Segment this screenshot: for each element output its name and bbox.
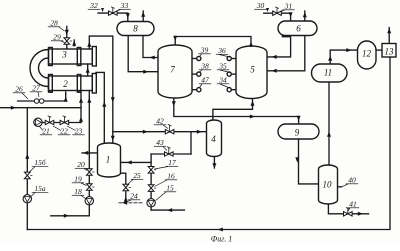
svg-text:16: 16 [167, 172, 175, 181]
svg-text:28: 28 [50, 19, 58, 28]
svg-text:36: 36 [217, 46, 226, 55]
svg-text:10: 10 [323, 180, 333, 190]
svg-text:47: 47 [201, 76, 209, 85]
svg-text:20: 20 [77, 160, 85, 169]
svg-text:43: 43 [156, 138, 164, 147]
svg-text:2: 2 [63, 79, 68, 89]
svg-text:31: 31 [284, 2, 293, 11]
svg-text:18: 18 [74, 187, 82, 196]
svg-text:12: 12 [362, 49, 372, 59]
svg-text:25: 25 [133, 171, 141, 180]
svg-text:27: 27 [32, 84, 40, 93]
svg-text:24: 24 [130, 192, 138, 201]
svg-text:15: 15 [166, 184, 174, 193]
svg-text:29: 29 [53, 33, 61, 42]
svg-text:9: 9 [295, 128, 300, 138]
svg-text:15а: 15а [34, 184, 46, 193]
svg-text:1: 1 [106, 155, 111, 165]
svg-text:19: 19 [74, 175, 82, 184]
svg-text:23: 23 [75, 127, 83, 136]
svg-text:Фиг. 1: Фиг. 1 [211, 235, 232, 244]
svg-text:30: 30 [256, 1, 265, 10]
svg-text:7: 7 [170, 65, 175, 75]
svg-text:4: 4 [211, 134, 216, 144]
svg-text:35: 35 [218, 62, 227, 71]
svg-text:22: 22 [60, 127, 68, 136]
svg-text:38: 38 [200, 62, 209, 71]
svg-text:32: 32 [89, 1, 98, 10]
svg-text:39: 39 [200, 46, 209, 55]
svg-text:17: 17 [168, 158, 176, 167]
svg-text:6: 6 [296, 24, 301, 34]
svg-text:41: 41 [349, 200, 357, 209]
svg-text:8: 8 [133, 24, 138, 34]
svg-text:15б: 15б [34, 158, 46, 167]
svg-text:26: 26 [15, 85, 23, 94]
svg-text:21: 21 [42, 127, 50, 136]
svg-text:5: 5 [250, 65, 255, 75]
svg-text:33: 33 [120, 1, 129, 10]
svg-text:3: 3 [61, 50, 67, 60]
svg-text:42: 42 [156, 117, 164, 126]
svg-text:40: 40 [348, 176, 356, 185]
svg-text:13: 13 [385, 47, 395, 57]
svg-text:34: 34 [218, 76, 227, 85]
svg-text:11: 11 [324, 68, 332, 78]
